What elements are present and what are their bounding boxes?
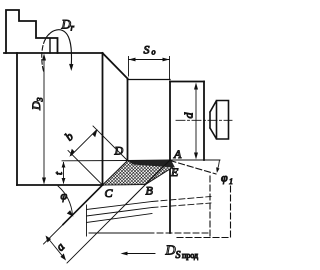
svg-text:o: o bbox=[152, 48, 156, 57]
svg-text:S: S bbox=[176, 250, 181, 261]
svg-text:1: 1 bbox=[229, 177, 233, 186]
arrowhead a lower bbox=[60, 253, 66, 260]
svg-text:a: a bbox=[53, 240, 67, 254]
arrowhead t top bbox=[62, 162, 66, 168]
tool bottom line bbox=[89, 232, 148, 234]
shoulder top line bbox=[170, 81, 204, 83]
centerline axis bbox=[176, 119, 232, 121]
machined bottom extension line bbox=[62, 160, 128, 162]
feed arrow DSprod bbox=[123, 253, 155, 255]
arrowhead d top bbox=[194, 83, 198, 90]
arrowhead phi1 bbox=[216, 167, 219, 173]
feed mark line 3 bbox=[87, 214, 153, 223]
dimension t line bbox=[63, 163, 65, 184]
end face bbox=[203, 82, 205, 161]
angle phi arc bbox=[58, 186, 73, 215]
arrowhead a upper bbox=[46, 236, 52, 243]
dimension b line bbox=[71, 131, 96, 156]
vertical node C-D3 bbox=[102, 53, 104, 185]
chuck outline bbox=[6, 10, 58, 53]
tool dashed right edge bbox=[230, 186, 232, 237]
svg-text:A: A bbox=[173, 147, 182, 161]
dimension b extension lower bbox=[68, 151, 103, 186]
dimension b extension upper bbox=[93, 126, 128, 161]
svg-text:прод: прод bbox=[182, 251, 198, 260]
arrowhead D3 bottom bbox=[42, 178, 46, 185]
svg-text:b: b bbox=[62, 129, 76, 143]
svg-text:S: S bbox=[144, 43, 150, 57]
angle phi1 arc bbox=[217, 160, 219, 171]
feed mark line 1 bbox=[87, 202, 153, 210]
svg-text:3: 3 bbox=[36, 98, 45, 103]
svg-text:φ: φ bbox=[221, 171, 228, 185]
arrowhead phi bbox=[67, 210, 74, 216]
feed mark left edge bbox=[86, 205, 88, 236]
dimension So extension left bbox=[128, 57, 130, 77]
angle phi1 dashed ray bbox=[170, 161, 216, 175]
arrowhead t bottom bbox=[62, 178, 66, 184]
blank bottom line bbox=[17, 184, 103, 186]
arrowhead Dr bbox=[69, 64, 73, 71]
dimension So extension right bbox=[169, 57, 171, 80]
svg-text:D: D bbox=[165, 244, 176, 259]
arrowhead So right bbox=[163, 58, 170, 62]
arrowhead d bottom bbox=[194, 153, 198, 160]
edge AB extension thin bbox=[67, 204, 126, 263]
edge AB line bbox=[126, 160, 170, 204]
tool dashed left edge bbox=[209, 176, 211, 237]
blank top line bbox=[4, 52, 103, 54]
svg-text:E: E bbox=[170, 165, 179, 179]
chuck jaw line bbox=[49, 39, 51, 54]
tailstock center bbox=[210, 101, 229, 140]
wire Dr arc solid bbox=[49, 30, 72, 66]
arrowhead D3 top bbox=[42, 54, 46, 61]
label t bbox=[53, 171, 65, 175]
cone diagonal bbox=[103, 53, 128, 79]
cut section hatched bbox=[103, 160, 174, 185]
machined top line bbox=[128, 79, 171, 81]
label D3 bbox=[29, 98, 45, 112]
svg-text:D: D bbox=[114, 144, 124, 158]
blank left edge bbox=[16, 53, 18, 185]
svg-text:D: D bbox=[29, 101, 43, 111]
vertical through A bbox=[169, 82, 171, 234]
svg-text:φ: φ bbox=[61, 189, 68, 203]
svg-text:d: d bbox=[182, 112, 196, 119]
feed mark line 2 bbox=[87, 208, 153, 217]
label a bbox=[53, 240, 67, 254]
arrowhead So left bbox=[129, 58, 136, 62]
d bottom extension line bbox=[170, 159, 220, 161]
arrowhead DSprod bbox=[121, 252, 128, 256]
dimension d line bbox=[195, 85, 197, 158]
svg-text:r: r bbox=[71, 23, 75, 33]
label d bbox=[182, 112, 196, 119]
svg-text:B: B bbox=[146, 184, 154, 198]
wire Dr arc dashed bbox=[42, 34, 49, 71]
arrowhead b lower bbox=[70, 149, 75, 157]
svg-text:C: C bbox=[105, 186, 114, 200]
arrowhead b upper bbox=[93, 129, 98, 137]
tool dashed bottom bbox=[177, 237, 231, 239]
cutting edge extension thin bbox=[44, 225, 64, 245]
cut section dark sliver DAE bbox=[128, 160, 175, 168]
vertical x127 bbox=[127, 79, 129, 161]
dimension So line bbox=[129, 59, 170, 61]
label b bbox=[62, 129, 76, 143]
main cutting edge through C bbox=[63, 185, 103, 225]
dimension a line bbox=[47, 237, 65, 259]
dimension D3 line bbox=[43, 56, 45, 183]
